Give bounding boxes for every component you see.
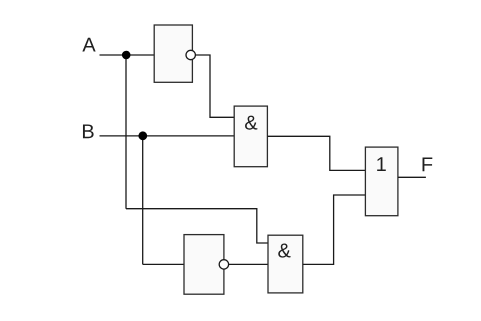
wire U4 output to OR bbox=[303, 195, 366, 264]
node junction on B bbox=[138, 131, 147, 140]
input label B bbox=[83, 124, 94, 138]
wire U1 output to AND1 bbox=[195, 55, 234, 117]
inverter U1 output bubble bbox=[186, 50, 195, 59]
AND gate U4 body bbox=[268, 235, 303, 293]
wire U2 output to OR bbox=[267, 136, 365, 170]
AND gate U2 label bbox=[245, 116, 257, 130]
inverter U1 body bbox=[154, 25, 192, 82]
OR gate U5 body bbox=[365, 147, 398, 216]
inverter U3 output bubble bbox=[219, 260, 228, 269]
wire A branch drop to AND2 bbox=[257, 209, 268, 243]
wire U3 output to AND2 bbox=[229, 263, 268, 265]
wire B branch into NOT2 bbox=[143, 263, 184, 265]
input label A bbox=[82, 38, 95, 52]
wire OR output bbox=[398, 176, 426, 178]
node junction on A bbox=[122, 51, 131, 60]
AND gate U4 label bbox=[278, 244, 290, 258]
wire B lead bbox=[100, 135, 235, 137]
inverter U3 body bbox=[184, 235, 224, 295]
wire A branch vertical bbox=[125, 55, 127, 209]
OR gate U5 label bbox=[377, 157, 386, 171]
AND gate U2 body bbox=[234, 106, 267, 167]
output label F bbox=[423, 157, 433, 171]
wire A branch lower horizontal bbox=[126, 208, 257, 210]
wire A lead bbox=[100, 54, 155, 56]
wire B branch vertical bbox=[142, 136, 144, 265]
